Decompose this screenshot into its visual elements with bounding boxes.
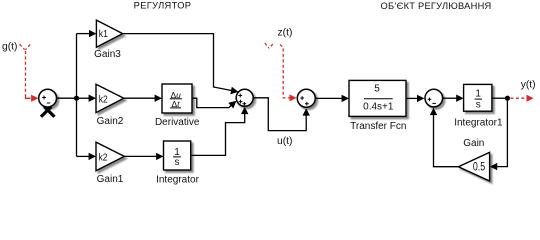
wire S1 to branch node — [57, 97, 77, 99]
wire Transfer Fcn to sum S4 — [406, 95, 424, 102]
wire Gain to sum S4 — [430, 108, 459, 167]
block Transfer Fcn — [349, 80, 406, 131]
y(t) red arrowhead — [527, 95, 534, 102]
z(t) dashed wire — [280, 45, 291, 98]
svg-text:k2: k2 — [99, 95, 108, 106]
node output junction — [505, 96, 510, 101]
svg-text:0.4s+1: 0.4s+1 — [363, 102, 394, 113]
wire Integrator1 to output node — [492, 97, 508, 99]
svg-text:k2: k2 — [99, 153, 108, 164]
wire S3 to Transfer Fcn — [316, 95, 349, 102]
sum S3 — [297, 89, 315, 107]
sum S2 — [236, 89, 253, 106]
block Integrator — [156, 141, 199, 185]
wire Gain1 to Integrator — [124, 153, 163, 160]
gain Gain (0.5) — [458, 138, 489, 181]
svg-text:ОБ’ЄКТ РЕГУЛЮВАННЯ: ОБ’ЄКТ РЕГУЛЮВАННЯ — [380, 1, 491, 11]
svg-text:z(t): z(t) — [278, 27, 293, 38]
gain Gain2 (k2) — [96, 84, 124, 127]
wire Gain3 to sum S2 — [123, 34, 239, 95]
svg-text:k1: k1 — [99, 29, 109, 40]
svg-text:Transfer Fcn: Transfer Fcn — [350, 121, 406, 132]
wire Derivative to sum S2 — [192, 98, 236, 108]
svg-text:1: 1 — [475, 89, 481, 100]
g(t) red arrowhead — [26, 97, 31, 99]
z(t) annotation tick — [265, 43, 273, 48]
svg-text:Integrator1: Integrator1 — [454, 118, 503, 129]
svg-text:u(t): u(t) — [277, 136, 292, 147]
sum S4 — [425, 89, 443, 107]
wire to Gain3 — [77, 30, 97, 37]
svg-text:РЕГУЛЯТОР: РЕГУЛЯТОР — [134, 0, 192, 10]
wire S4 to Integrator1 — [443, 95, 464, 102]
wire branch vertical — [76, 34, 78, 157]
sum S1 — [39, 89, 57, 107]
unconnected feedback mark X — [41, 107, 55, 117]
block Derivative — [155, 84, 200, 128]
g(t) annotation tick — [20, 44, 31, 50]
gain Gain3 (k1) — [94, 20, 122, 60]
wire output to Gain — [490, 98, 508, 170]
gain Gain1 (k2) — [96, 142, 124, 185]
svg-text:g(t): g(t) — [2, 42, 17, 53]
svg-text:y(t): y(t) — [521, 80, 536, 91]
z(t) red arrowhead — [290, 94, 297, 101]
g(t) dashed wire — [25, 51, 27, 97]
svg-text:5: 5 — [374, 84, 380, 95]
block Integrator1 — [454, 84, 503, 128]
node branch junction — [74, 96, 79, 101]
svg-text:Derivative: Derivative — [155, 117, 200, 128]
wire Gain2 to Derivative — [124, 95, 162, 102]
wire S2 to sum S3 — [254, 98, 310, 131]
wire to Gain2 — [77, 95, 97, 102]
y(t) dashed wire — [511, 97, 528, 99]
svg-text:0.5: 0.5 — [473, 161, 485, 173]
svg-text:Gain3: Gain3 — [94, 49, 121, 60]
wire Integrator to sum S2 — [191, 107, 249, 156]
svg-text:Gain2: Gain2 — [97, 116, 124, 127]
svg-text:s: s — [476, 100, 481, 111]
svg-text:Integrator: Integrator — [156, 174, 199, 185]
svg-text:s: s — [175, 157, 180, 168]
wire to Gain1 — [77, 153, 97, 160]
svg-text:Gain1: Gain1 — [97, 174, 124, 185]
svg-text:Gain: Gain — [463, 138, 484, 149]
